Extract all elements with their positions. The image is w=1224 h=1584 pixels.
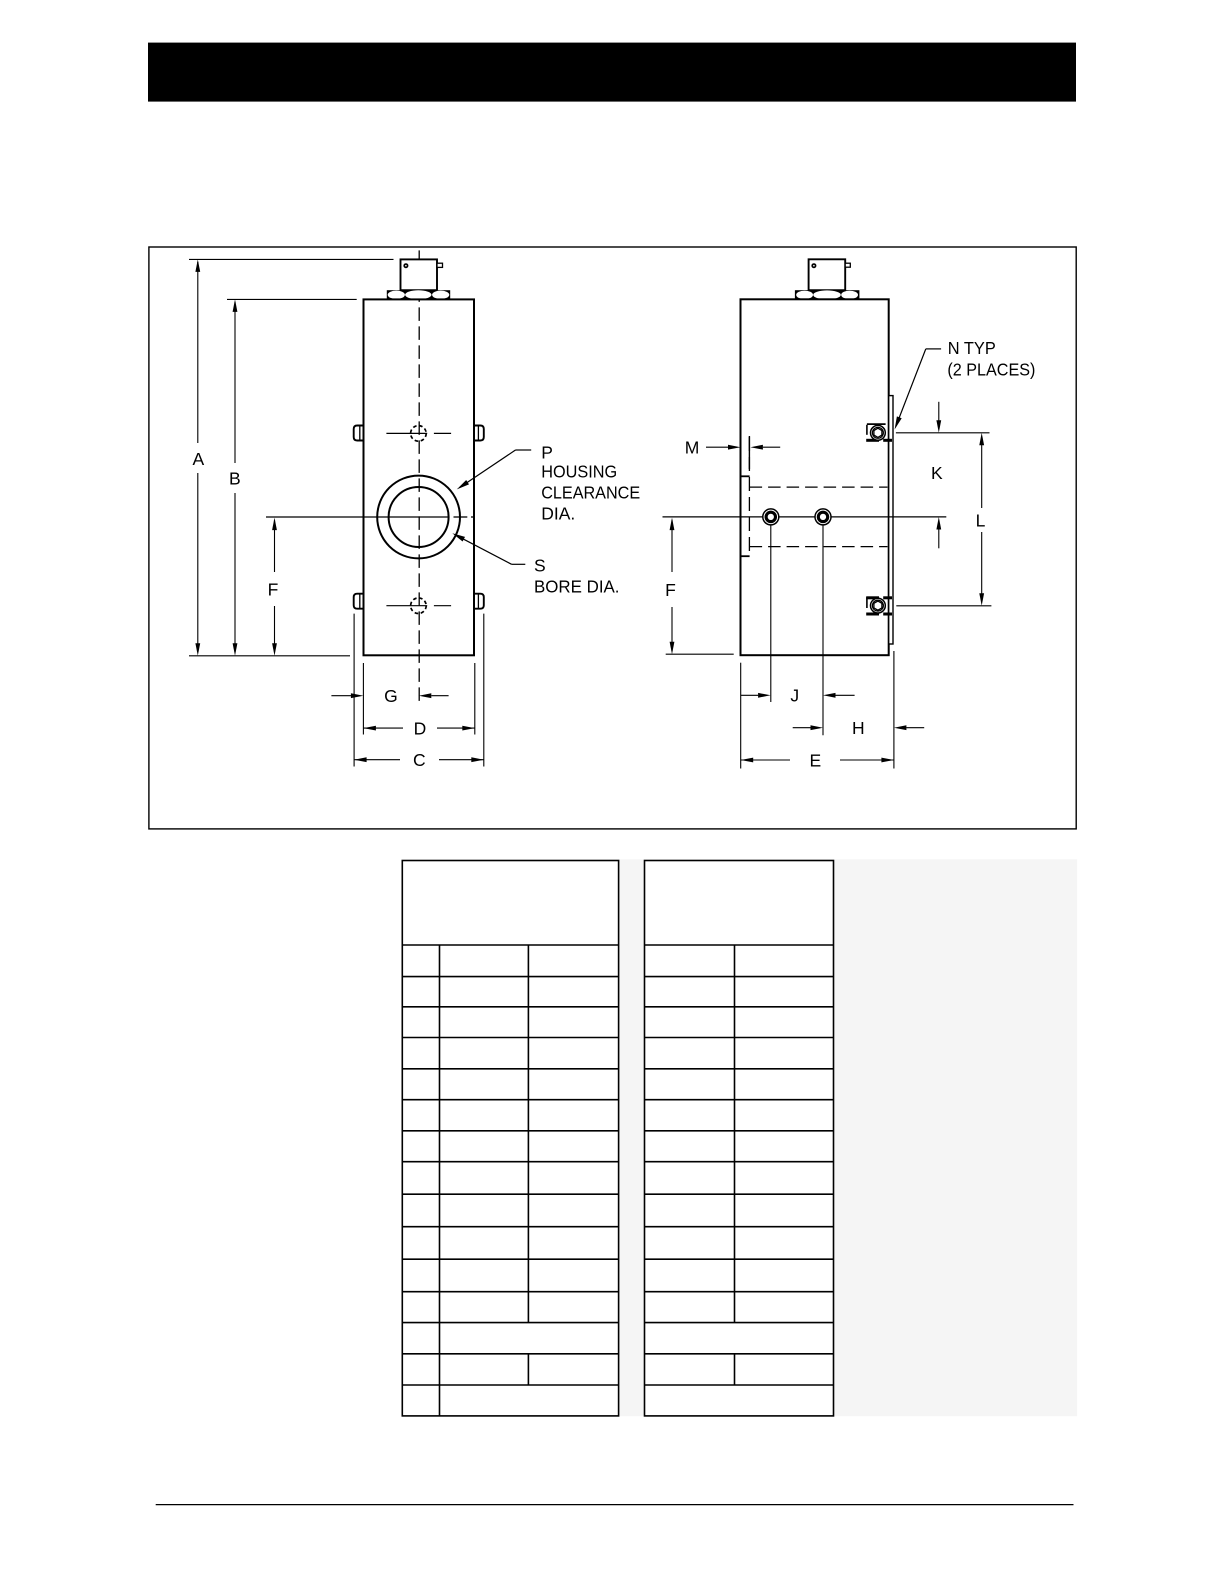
dimension A line: [197, 262, 199, 443]
svg-text:G: G: [384, 686, 398, 706]
dimension J arrows: [741, 694, 759, 696]
upper threaded hole center line: [386, 432, 427, 434]
mounting bolt center line 2: [822, 525, 824, 735]
table 1 dimensions-in frame: [402, 861, 618, 1416]
right view mounting plate edge strip: [889, 396, 893, 644]
mounting bolt center line 1: [770, 525, 772, 702]
left view grease fitting body: [401, 259, 438, 290]
S bore circle: [389, 487, 449, 547]
right view locking collar with balls: [795, 290, 860, 299]
svg-text:C: C: [413, 750, 426, 770]
left view bottom extension line: [189, 655, 350, 657]
left view bore horizontal center line (F extension): [266, 516, 449, 518]
svg-text:F: F: [665, 580, 676, 600]
mounting bolt hole 2: [815, 509, 831, 525]
left view lower-left lug: [354, 594, 364, 609]
upper clamp bolt N: [866, 439, 879, 442]
lower clamp bolt N: [866, 596, 879, 599]
left view upper-left lug: [354, 426, 364, 441]
footer rule: [156, 1504, 1074, 1506]
drawing frame box: [149, 247, 1076, 829]
svg-text:CLEARANCE: CLEARANCE: [541, 482, 640, 502]
svg-text:BORE DIA.: BORE DIA.: [534, 576, 620, 596]
right view grease fitting nipple circle: [811, 263, 816, 268]
svg-text:P: P: [541, 442, 553, 462]
P housing clearance circle: [377, 476, 460, 559]
left view vertical center line: [418, 250, 420, 701]
lower threaded hole center line: [386, 605, 427, 607]
N callout leader: [926, 348, 941, 350]
header black bar: [148, 43, 1076, 102]
dimension D line: [363, 727, 403, 729]
svg-text:A: A: [193, 449, 205, 469]
svg-text:DIA.: DIA.: [541, 503, 575, 523]
insert hidden profile dashed vertical: [748, 437, 750, 556]
dimension B line: [234, 302, 236, 463]
K/L lower extension line: [896, 605, 991, 607]
left view grease fitting nipple circle: [403, 263, 408, 268]
C extension lines: [353, 614, 355, 767]
left view housing body: [364, 299, 475, 655]
P callout leader: [516, 449, 532, 451]
svg-text:J: J: [790, 686, 799, 706]
dimension B extension line top: [227, 298, 357, 300]
S callout leader: [512, 563, 526, 565]
insert hidden profile dashed top: [750, 486, 888, 488]
left view upper-right lug: [474, 426, 484, 441]
svg-text:D: D: [414, 718, 427, 738]
dimension L line: [981, 440, 983, 508]
left view grease fitting side tab: [437, 263, 443, 267]
svg-text:L: L: [976, 510, 986, 530]
table 2 dimensions-mm frame: [645, 861, 834, 1416]
svg-text:E: E: [809, 750, 821, 770]
svg-text:M: M: [685, 437, 700, 457]
dimension M arrows: [706, 446, 728, 448]
K upper extension line: [896, 432, 990, 434]
lower threaded hole: [411, 598, 427, 614]
dimension E line: [741, 759, 790, 761]
E extension lines: [740, 663, 742, 769]
gray background panel: [619, 859, 1077, 1416]
dimension H arrows: [793, 727, 811, 729]
dimension F line right view: [671, 520, 673, 572]
right view F bottom extension line: [666, 653, 734, 655]
dimension A extension line top: [189, 258, 394, 260]
left view locking collar with balls: [387, 290, 450, 299]
svg-text:B: B: [229, 468, 241, 488]
dimension C line: [354, 759, 400, 761]
right view grease fitting body: [809, 259, 846, 290]
insert flange protrusion caps: [741, 475, 750, 477]
mounting bolt hole 1: [763, 509, 779, 525]
right view housing body: [741, 299, 889, 655]
left view lower-right lug: [474, 594, 484, 609]
svg-text:S: S: [534, 556, 546, 576]
dimension F line left view: [274, 520, 276, 572]
svg-text:F: F: [268, 580, 279, 600]
svg-text:N TYP: N TYP: [948, 338, 996, 358]
svg-text:H: H: [852, 718, 865, 738]
svg-text:K: K: [931, 463, 943, 483]
upper threaded hole: [411, 426, 427, 442]
svg-text:(2 PLACES): (2 PLACES): [947, 359, 1035, 379]
M tick solid segment: [748, 436, 750, 469]
dimension K arrows: [938, 402, 940, 425]
D extension lines: [362, 663, 364, 735]
right view bore center line: [663, 516, 947, 518]
dimension G arrows: [331, 695, 351, 697]
svg-text:HOUSING: HOUSING: [541, 461, 617, 481]
insert hidden profile dashed bottom: [750, 546, 888, 548]
right view grease fitting side tab: [845, 263, 850, 267]
